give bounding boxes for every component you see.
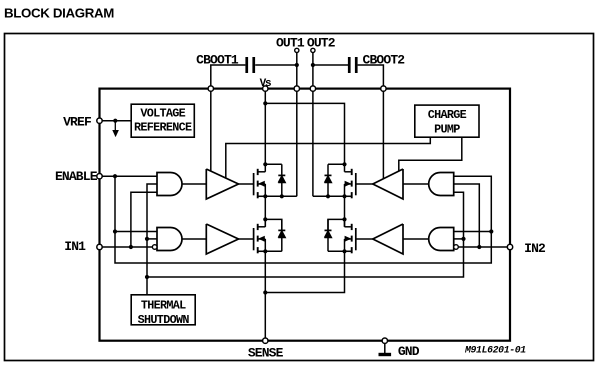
wire capacitor C2 to CBOOT2 node — [358, 65, 384, 89]
wire ENABLE distribution bus — [115, 176, 491, 263]
transistor Q1 high-side left — [253, 173, 255, 195]
wire CBOOT1 internal vertical to driver 1 — [210, 89, 212, 172]
svg-text:GND: GND — [398, 344, 420, 359]
wire SENSE link to right leg — [265, 251, 344, 292]
wire CBOOT2 internal vertical to driver 3 — [382, 89, 384, 179]
svg-text:CHARGE: CHARGE — [428, 108, 467, 122]
junction OUT1-CBOOT1 — [295, 63, 299, 67]
junction OUT2 internal — [342, 217, 346, 221]
wire charge pump to driver 1 — [226, 137, 430, 178]
wire Q2 source line — [259, 250, 282, 252]
junction Q2 source — [263, 249, 267, 253]
body diode D1 — [278, 174, 285, 176]
wire VREF to voltage reference — [102, 120, 132, 122]
wire thermal stub to A4 — [454, 238, 464, 240]
wire ENABLE stub to A4 — [454, 231, 492, 233]
junction ENABLE stub A4 — [489, 229, 493, 233]
wire ENABLE stub to A2 — [115, 231, 157, 233]
wire A3 output to driver T3 — [403, 183, 429, 185]
AND gate A3 — [429, 173, 454, 196]
svg-text:IN1: IN1 — [64, 239, 86, 254]
pin node OUT1 on package — [294, 86, 299, 91]
wire OUT2 node to D4 cathode — [328, 219, 345, 230]
terminal OUT1 — [295, 48, 299, 52]
junction Q3 source — [342, 194, 346, 198]
wire thermal shutdown vertical left — [147, 184, 157, 295]
junction SENSE node — [263, 290, 267, 294]
wire Q2 source to SENSE — [264, 251, 266, 340]
junction IN1 tap — [129, 245, 133, 249]
capacitor CBOOT1 — [245, 57, 248, 73]
wire OUT2 vertical — [312, 53, 314, 197]
wire Q1 source line / OUT1 node — [259, 195, 297, 197]
body diode D4 — [325, 229, 332, 231]
junction ENABLE stub A2 — [113, 229, 117, 233]
wire A4 output to driver T4 — [403, 238, 429, 240]
bubble inverting input A2 — [152, 245, 157, 250]
AND gate A1 — [157, 173, 182, 196]
wire Q3 drain node to D3 — [328, 163, 345, 165]
box charge pump CHARGE PUMP — [415, 105, 479, 137]
ground symbol — [384, 343, 386, 353]
wire ENABLE to AND gate A1 — [102, 175, 158, 177]
terminal VREF — [97, 118, 102, 123]
box thermal shutdown THERMAL SHUTDOWN — [131, 295, 195, 325]
junction thermal stub A2 — [145, 237, 149, 241]
AND gate A4 — [429, 228, 454, 251]
svg-text:VOLTAGE: VOLTAGE — [140, 106, 185, 120]
pin node OUT2 on package — [310, 86, 315, 91]
body diode D3 — [325, 174, 332, 176]
terminal IN2 — [507, 244, 512, 249]
junction OUT1 internal — [263, 217, 267, 221]
terminal IN1 — [97, 244, 102, 249]
junction D1 anode — [280, 194, 284, 198]
svg-text:SHUTDOWN: SHUTDOWN — [138, 313, 190, 327]
bubble inverting input A4 — [454, 245, 459, 250]
wire OUT1 node down to Q2 drain — [264, 196, 266, 227]
svg-text:SENSE: SENSE — [248, 345, 284, 360]
wire thermal bus to right gates — [147, 192, 464, 277]
wire Q3 source line / OUT2 node — [313, 195, 351, 197]
pin node CBOOT2 on package — [381, 86, 386, 91]
pin SENSE — [263, 338, 268, 343]
wire charge pump to driver 3 — [399, 137, 462, 171]
svg-text:THERMAL: THERMAL — [141, 298, 186, 312]
wire IN2 from AND gate A4 bubble — [458, 246, 507, 248]
wire IN1 to AND gate A1 input — [131, 192, 157, 247]
junction thermal bus tap — [145, 275, 149, 279]
wire thermal stub to A2 — [147, 238, 157, 240]
wire Q1 drain node to D1 — [265, 163, 282, 165]
svg-text:VREF: VREF — [63, 115, 92, 130]
transistor Q4 low-side right — [355, 228, 357, 250]
junction VREF arrow tap — [113, 119, 117, 123]
junction D3 anode — [326, 194, 330, 198]
junction Q1 drain — [263, 162, 267, 166]
driver buffer T3 — [373, 169, 403, 199]
wire Vs column left — [264, 89, 266, 165]
wire IN1 to AND gate A2 bubble — [102, 246, 153, 248]
IC package box — [100, 89, 511, 341]
driver buffer T2 — [206, 224, 238, 254]
svg-text:PUMP: PUMP — [434, 123, 460, 137]
junction IN2 tap — [477, 245, 481, 249]
junction OUT2-CBOOT2 — [311, 63, 315, 67]
junction Q4 source — [342, 249, 346, 253]
wire OUT1 vertical — [296, 53, 298, 197]
wire A2 output to driver T2 — [182, 238, 206, 240]
svg-text:REFERENCE: REFERENCE — [134, 121, 192, 135]
junction ENABLE drop — [113, 174, 117, 178]
capacitor CBOOT2 — [348, 57, 351, 73]
wire OUT2 to capacitor C2 — [313, 64, 348, 66]
pin node Vs on package — [263, 86, 268, 91]
wire IN2 to AND gate A3 input — [454, 184, 480, 247]
transistor Q3 high-side right — [355, 173, 357, 195]
junction Vs branch — [263, 101, 267, 105]
wire Vs branch to right column — [265, 103, 344, 164]
wire capacitor C1 to CBOOT1 node — [211, 65, 246, 89]
transistor Q2 low-side left — [253, 228, 255, 250]
wire A1 output to driver T1 — [182, 183, 206, 185]
terminal OUT2 — [311, 48, 315, 52]
body diode D2 — [278, 229, 285, 231]
driver buffer T4 — [373, 224, 403, 254]
arrow VREF reference current — [114, 121, 116, 132]
driver buffer T1 — [206, 169, 238, 199]
svg-text:OUT1: OUT1 — [276, 36, 305, 51]
wire Q4 source line — [328, 250, 351, 252]
junction Q1 source — [263, 194, 267, 198]
AND gate A2 — [157, 228, 182, 251]
svg-text:ENABLE: ENABLE — [55, 169, 98, 184]
wire OUT1 to capacitor C1 — [255, 64, 297, 66]
svg-text:BLOCK DIAGRAM: BLOCK DIAGRAM — [4, 6, 114, 21]
svg-text:M91L6201-01: M91L6201-01 — [464, 344, 526, 355]
svg-text:IN2: IN2 — [524, 241, 546, 256]
junction thermal stub A4 — [461, 237, 465, 241]
terminal ENABLE — [97, 174, 102, 179]
wire OUT2 node down to Q4 drain — [344, 196, 346, 227]
wire OUT1 node to D2 cathode — [265, 219, 282, 230]
junction Q3 drain — [342, 162, 346, 166]
pin node CBOOT1 on package — [208, 86, 213, 91]
pin GND — [382, 338, 387, 343]
box voltage reference VOLTAGE REFERENCE — [131, 104, 194, 137]
